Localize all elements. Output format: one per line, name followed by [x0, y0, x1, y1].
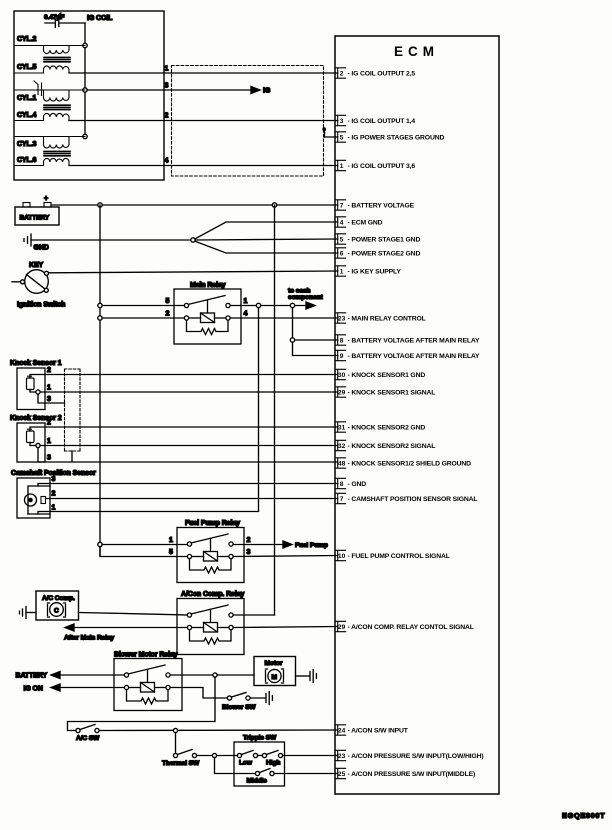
A/C switch — [76, 728, 80, 732]
transformer T2 core — [44, 105, 70, 109]
svg-text:- CAMSHAFT POSITION SENSOR SIG: - CAMSHAFT POSITION SENSOR SIGNAL — [348, 496, 478, 503]
wire bus1 to main relay pin 5 — [102, 305, 184, 307]
wire blower relay contact to motor — [170, 674, 254, 676]
ECM pin 5 - POWER STAGE1 GND — [336, 234, 345, 244]
wire A/Con relay contact to bus2 — [233, 614, 274, 616]
svg-text:32: 32 — [338, 443, 346, 450]
node ring thermal feed — [173, 728, 177, 732]
wire Low to High — [258, 755, 263, 757]
node ring KS2 pin1 — [36, 443, 40, 447]
svg-text:BATTERY: BATTERY — [16, 673, 48, 680]
wire coil pin1 to ECM pin 2 — [69, 72, 338, 74]
wire main relay pin 1 output — [230, 305, 306, 307]
wire fan to ECM pin 5 — [195, 239, 338, 240]
ECM pin 4 - ECM GND — [336, 217, 345, 227]
svg-text:- A/CON PRESSURE S/W INPUT(MID: - A/CON PRESSURE S/W INPUT(MIDDLE) — [348, 771, 476, 778]
pressure switch Middle — [255, 771, 259, 775]
svg-text:3: 3 — [340, 118, 344, 125]
ECM pin 32 - KNOCK SENSOR2 SIGNAL — [336, 440, 345, 450]
ECM pin 23 - A/CON PRESSURE S/W INPUT(LOW/HIGH) — [336, 750, 345, 760]
wire shield to ECM pin 5 ground — [325, 130, 338, 137]
svg-text:7: 7 — [340, 496, 344, 503]
wire IG ON arrow to blower relay coil — [60, 687, 124, 689]
svg-text:Knock Sensor 2: Knock Sensor 2 — [10, 415, 62, 422]
svg-text:BATTERY: BATTERY — [20, 215, 50, 222]
svg-text:- A/CON COMP. RELAY CONTOL SI: - A/CON COMP. RELAY CONTOL SIGNAL — [348, 624, 474, 631]
wire A/C comp to A/Con relay contact — [79, 613, 191, 616]
dashed harness connector box — [172, 66, 324, 177]
svg-text:- KNOCK SENSOR2 GND: - KNOCK SENSOR2 GND — [348, 425, 426, 432]
svg-text:29: 29 — [338, 389, 346, 396]
svg-text:- A/CON PRESSURE S/W INPUT(LOW: - A/CON PRESSURE S/W INPUT(LOW/HIGH) — [348, 753, 484, 760]
svg-text:- KNOCK SENSOR1/2 SHIELD GROUN: - KNOCK SENSOR1/2 SHIELD GROUND — [348, 461, 472, 468]
svg-text:- GND: - GND — [348, 481, 367, 488]
svg-text:30: 30 — [338, 372, 346, 379]
svg-text:KEY: KEY — [29, 262, 44, 269]
ECM pin 23 - MAIN RELAY CONTROL — [336, 313, 345, 323]
ECM pin 9 - BATTERY VOLTAGE AFTER MAIN RELAY — [336, 350, 345, 360]
node ring bus-T2 — [83, 88, 87, 92]
svg-text:- BATTERY VOLTAGE AFTER MAIN R: - BATTERY VOLTAGE AFTER MAIN RELAY — [348, 338, 480, 345]
svg-text:2: 2 — [340, 70, 344, 77]
ECM pin 7 - CAMSHAFT POSITION SENSOR SIGNAL — [336, 493, 345, 503]
svg-text:1: 1 — [244, 298, 248, 305]
svg-text:ECM: ECM — [394, 44, 439, 59]
svg-text:Knock Sensor 1: Knock Sensor 1 — [10, 360, 62, 367]
node ring bus1 pin2 — [98, 316, 102, 320]
thermal switch — [173, 753, 177, 757]
wire KS2 pin2 to ECM pin 31 — [30, 427, 338, 431]
svg-text:A/C SW: A/C SW — [76, 735, 100, 742]
svg-text:- POWER STAGE2 GND: - POWER STAGE2 GND — [348, 251, 421, 258]
svg-text:1: 1 — [340, 163, 344, 170]
svg-text:A/C Comp.: A/C Comp. — [42, 595, 75, 602]
wire bus1 to fuel relay pin 1 — [102, 544, 187, 546]
wire GND to fan node — [31, 239, 191, 241]
svg-text:Ignition Switch: Ignition Switch — [17, 302, 65, 309]
ECM pin 29 - A/CON COMP. RELAY CONTOL SIGNAL — [336, 621, 345, 631]
svg-text:Middle: Middle — [247, 778, 268, 785]
node ring gnd fan — [191, 238, 195, 242]
svg-text:- IG KEY SUPPLY: - IG KEY SUPPLY — [348, 269, 402, 276]
node ring motor line junction — [213, 673, 217, 677]
svg-text:Fuel Pump: Fuel Pump — [295, 542, 328, 549]
svg-text:- IG COIL OUTPUT 3,6: - IG COIL OUTPUT 3,6 — [348, 163, 416, 170]
svg-text:2: 2 — [166, 311, 170, 318]
svg-text:3: 3 — [247, 549, 251, 556]
wire blower switch to ground — [250, 697, 265, 699]
noise suppressor on CYL.1 line — [34, 81, 42, 96]
svg-text:1: 1 — [52, 505, 56, 512]
svg-text:IG COIL: IG COIL — [87, 15, 113, 22]
wire fan to ECM pin 6 — [195, 241, 338, 253]
blower switch — [227, 696, 231, 700]
ECM pin 30 - KNOCK SENSOR1 GND — [336, 369, 345, 379]
node ring after-main-relay busA — [256, 303, 260, 307]
svg-text:6: 6 — [340, 250, 344, 257]
arrow to each component — [306, 302, 315, 309]
svg-text:- KNOCK SENSOR1 GND: - KNOCK SENSOR1 GND — [348, 372, 426, 379]
svg-text:Blower Motor Relay: Blower Motor Relay — [114, 652, 178, 659]
svg-text:2: 2 — [52, 491, 56, 498]
ECM pin 7 - BATTERY VOLTAGE — [336, 200, 345, 210]
svg-text:Thermal SW: Thermal SW — [162, 760, 200, 767]
svg-text:A/Con Comp. Relay: A/Con Comp. Relay — [181, 591, 244, 598]
ECM pin 2 - IG COIL OUTPUT 2,5 — [336, 68, 345, 78]
svg-text:23: 23 — [338, 315, 346, 322]
ECM pin 29 - KNOCK SENSOR1 SIGNAL — [336, 387, 345, 397]
svg-text:25: 25 — [338, 771, 346, 778]
battery B1 — [15, 207, 59, 225]
ECM pin 10 - FUEL PUMP CONTROL SIGNAL — [336, 550, 345, 560]
svg-text:8: 8 — [340, 481, 344, 488]
wire thermal switch to junction — [197, 755, 213, 757]
bus1 battery feed vertical — [99, 205, 101, 556]
svg-text:- BATTERY VOLTAGE: - BATTERY VOLTAGE — [348, 203, 415, 210]
blower motor — [254, 657, 296, 686]
svg-text:M: M — [272, 674, 278, 681]
svg-text:31: 31 — [338, 424, 346, 431]
wire Middle to ECM pin 25 — [274, 773, 338, 775]
svg-text:EGQE800T: EGQE800T — [562, 811, 605, 820]
ground symbol at blower switch — [266, 692, 272, 705]
ECM pin 48 - KNOCK SENSOR1/2 SHIELD GROUND — [336, 458, 345, 468]
ground symbol at motor — [310, 670, 316, 683]
svg-text:After Main Relay: After Main Relay — [64, 635, 114, 642]
svg-text:- BATTERY VOLTAGE AFTER MAIN R: - BATTERY VOLTAGE AFTER MAIN RELAY — [348, 353, 480, 360]
shield dashed box — [65, 369, 81, 451]
node ring busB pin8 — [290, 338, 294, 342]
svg-text:0.47μF: 0.47μF — [44, 14, 64, 21]
svg-text:- ECM GND: - ECM GND — [348, 220, 383, 227]
node ring battery-bus1 — [98, 203, 102, 207]
svg-text:IG: IG — [263, 88, 271, 95]
svg-text:48: 48 — [338, 460, 346, 467]
ECM pin 31 - KNOCK SENSOR2 GND — [336, 422, 345, 432]
svg-text:- IG POWER STAGES GROUND: - IG POWER STAGES GROUND — [348, 135, 445, 142]
svg-text:29: 29 — [338, 624, 346, 631]
svg-text:CYL.5: CYL.5 — [17, 64, 37, 71]
svg-text:Main Relay: Main Relay — [190, 282, 226, 289]
busB to ECM pins 8,9 — [293, 308, 338, 356]
ground symbol main GND — [24, 234, 31, 246]
capacitor 0.47uF — [45, 13, 85, 28]
coil common bus — [84, 23, 86, 137]
svg-text:component: component — [288, 294, 324, 301]
node ring battery-bus2 — [272, 203, 276, 207]
svg-text:4: 4 — [165, 158, 169, 165]
wire KS2 pin1 to ECM pin 32 — [30, 443, 338, 446]
wire fuel relay pin 3 to ECM pin 10 — [233, 556, 338, 557]
wire junction down to Middle switch — [215, 758, 256, 774]
svg-text:1: 1 — [47, 438, 51, 445]
wire coil pin4 to ECM pin 1 — [69, 165, 338, 167]
wire bus1 to fuel relay pin 5 — [100, 547, 187, 557]
wire KS2 pin3 to ECM pin 48 shield ground — [38, 448, 338, 462]
svg-text:1: 1 — [340, 268, 344, 275]
svg-text:4: 4 — [340, 219, 344, 226]
svg-text:Blower SW: Blower SW — [222, 704, 256, 711]
svg-text:IG ON: IG ON — [24, 686, 43, 693]
wire down to thermal switch — [175, 733, 177, 754]
svg-text:4: 4 — [244, 311, 248, 318]
svg-text:- KNOCK SENSOR1 SIGNAL: - KNOCK SENSOR1 SIGNAL — [348, 390, 436, 397]
wire motor to ground — [296, 675, 310, 677]
svg-text:CYL.6: CYL.6 — [17, 157, 37, 164]
transformer T3 core — [44, 151, 70, 155]
svg-text:GND: GND — [34, 245, 49, 252]
svg-text:2: 2 — [247, 537, 251, 544]
svg-text:7: 7 — [340, 202, 344, 209]
svg-text:- IG COIL OUTPUT 1,4: - IG COIL OUTPUT 1,4 — [348, 118, 416, 125]
wire bus1 to main relay pin 2 — [102, 317, 184, 319]
ECM pin 25 - A/CON PRESSURE S/W INPUT(MIDDLE) — [336, 768, 345, 778]
svg-text:5: 5 — [169, 549, 173, 556]
wire cam pin2 to ECM pin 7 signal — [46, 498, 338, 500]
ECM box — [335, 36, 499, 794]
svg-text:1: 1 — [47, 385, 51, 392]
wire fan to ECM pin 4 — [195, 222, 338, 239]
svg-text:3: 3 — [165, 83, 169, 90]
node ring pressure switch feed — [212, 753, 216, 757]
svg-text:2: 2 — [47, 420, 51, 427]
ECM pin 24 - A/CON S/W INPUT — [336, 725, 345, 735]
wire blower relay coil to blower switch — [170, 688, 227, 699]
svg-text:Low: Low — [239, 760, 253, 767]
ECM pin 1 - IG KEY SUPPLY — [336, 266, 345, 276]
pressure switch Low — [237, 753, 241, 757]
wire KS1 pin1 to ECM pin 29 — [30, 390, 338, 393]
ECM pin 1 - IG COIL OUTPUT 3,6 — [336, 160, 345, 170]
wire A/Con relay coil to ECM pin 29 — [233, 627, 338, 628]
svg-text:Motor: Motor — [265, 660, 283, 667]
wire fuel relay pin 2 to fuel pump arrow — [233, 544, 283, 546]
node ring bus1 fuel pin1 — [98, 542, 102, 546]
svg-text:+: + — [44, 196, 48, 203]
svg-text:- MAIN RELAY CONTROL: - MAIN RELAY CONTROL — [348, 316, 426, 323]
svg-text:CYL.1: CYL.1 — [17, 95, 37, 102]
node ring bus-T3 — [83, 134, 87, 138]
svg-text:5: 5 — [340, 134, 344, 141]
svg-text:1: 1 — [169, 537, 173, 544]
wire key to ECM pin 1 IG KEY SUPPLY — [49, 271, 338, 273]
wire KS1 pin2 to ECM pin 30 — [30, 375, 338, 379]
svg-text:3: 3 — [47, 396, 51, 403]
svg-text:10: 10 — [338, 553, 346, 560]
svg-text:8: 8 — [340, 337, 344, 344]
svg-text:Fuel Pump Relay: Fuel Pump Relay — [185, 520, 240, 527]
svg-text:- FUEL PUMP CONTROL SIGNAL: - FUEL PUMP CONTROL SIGNAL — [348, 553, 450, 560]
wire busB to ECM pin 8 — [295, 339, 338, 341]
node ring bus-T1 — [83, 43, 87, 47]
svg-text:9: 9 — [340, 353, 344, 360]
svg-text:CYL.3: CYL.3 — [17, 141, 37, 148]
wire battery voltage to ECM pin 7 — [51, 204, 338, 206]
svg-text:- A/CON S/W INPUT: - A/CON S/W INPUT — [348, 728, 409, 735]
wire KS1 pin3 to shield — [38, 394, 65, 403]
wire coil pin2 to ECM pin 3 — [69, 120, 338, 122]
svg-text:3: 3 — [47, 455, 51, 462]
svg-text:C: C — [54, 608, 59, 615]
ECM pin 6 - POWER STAGE2 GND — [336, 248, 345, 258]
transformer T1 core — [44, 57, 70, 61]
node ring bus1 pin5 — [98, 303, 102, 307]
svg-text:5: 5 — [166, 298, 170, 305]
svg-text:5: 5 — [340, 236, 344, 243]
svg-text:3: 3 — [52, 476, 56, 483]
svg-text:- KNOCK SENSOR2 SIGNAL: - KNOCK SENSOR2 SIGNAL — [348, 443, 436, 450]
svg-text:CYL.4: CYL.4 — [17, 112, 37, 119]
wire motor junction down to A/C SW feed — [68, 677, 216, 730]
wire junction to Low switch — [217, 755, 238, 757]
svg-text:CYL.2: CYL.2 — [17, 36, 37, 43]
wire IG output with arrow — [87, 89, 251, 91]
wire after main relay arrow to relay coil — [74, 627, 187, 629]
node ring KS1 pin1 — [36, 390, 40, 394]
svg-text:2: 2 — [47, 367, 51, 374]
wire cam pin1 to after-main-relay busA — [38, 512, 51, 515]
svg-text:High: High — [266, 760, 280, 767]
svg-text:- POWER STAGE1 GND: - POWER STAGE1 GND — [348, 237, 421, 244]
svg-text:Tripple SW: Tripple SW — [243, 735, 277, 742]
ECM pin 8 - GND — [336, 478, 345, 488]
wire main relay pin 4 to ECM pin 23 — [230, 317, 338, 319]
ECM pin 3 - IG COIL OUTPUT 1,4 — [336, 115, 345, 125]
node ring after-main-relay busB — [290, 303, 294, 307]
pressure switch High — [262, 753, 266, 757]
svg-text:- IG COIL OUTPUT 2,5: - IG COIL OUTPUT 2,5 — [348, 71, 416, 78]
svg-text:1: 1 — [165, 66, 169, 73]
bus2 battery feed vertical — [274, 205, 276, 615]
svg-text:23: 23 — [338, 753, 346, 760]
svg-text:24: 24 — [338, 727, 346, 734]
wire High to ECM pin 23 — [283, 755, 338, 757]
ground symbol at A/C comp — [20, 607, 27, 619]
wire battery arrow to blower relay contact — [60, 674, 124, 676]
wire A/C switch to ECM pin 24 — [99, 729, 338, 732]
ECM pin 5 - IG POWER STAGES GROUND — [336, 132, 345, 142]
wire cam pin3 to ECM pin 8 GND — [38, 484, 338, 487]
svg-text:2: 2 — [165, 113, 169, 120]
ECM pin 8 - BATTERY VOLTAGE AFTER MAIN RELAY — [336, 335, 345, 345]
busA after main relay vertical — [51, 308, 259, 512]
ignition coil assembly box — [14, 11, 164, 180]
